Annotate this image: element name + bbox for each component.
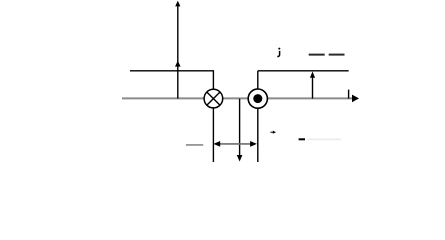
label j [277, 48, 280, 57]
axis tick mark [348, 90, 350, 99]
tiny arrow label [270, 131, 276, 134]
axis end arrowhead [352, 95, 359, 103]
wire: upper-left horizontal line into mixer top [130, 71, 213, 90]
wire: mixer bottom stem [212, 108, 214, 162]
wire: modulator bottom stem [257, 108, 259, 162]
label dash (bottom right, black) [299, 138, 305, 140]
spacing dimension double arrow [213, 141, 257, 147]
label dash pair (top right) [309, 54, 325, 56]
mixer M1 (circle with X) [204, 89, 223, 108]
wire: upper-right horizontal line [258, 70, 349, 72]
impulse arrow (short, up to line) [310, 72, 315, 99]
frequency axis (gray trunk line) [122, 97, 352, 99]
label dash (left of stems) [186, 144, 203, 146]
faint line remnant [307, 138, 341, 140]
wire: modulator top stem [257, 71, 259, 89]
down arrow between stems [239, 99, 241, 157]
impulse arrow (tall, double-headed up) [177, 3, 179, 99]
modulator U1 (circle with filled dot) [248, 89, 267, 108]
